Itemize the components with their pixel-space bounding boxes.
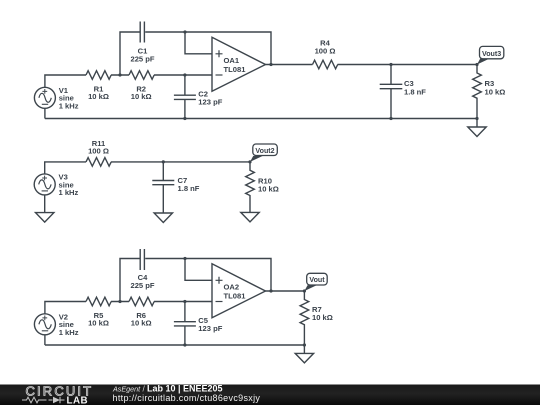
- ground under C7: [154, 213, 172, 223]
- capacitor C5: [174, 302, 196, 346]
- capacitor C3: [380, 65, 403, 119]
- svg-text:TL081: TL081: [224, 292, 247, 301]
- C7 label: [178, 176, 200, 193]
- R4 label: [315, 39, 336, 56]
- resistor R4: [313, 60, 338, 69]
- flag Vout3: [477, 46, 504, 64]
- C3 bottom dot: [389, 117, 392, 120]
- rail dot R7: [303, 343, 306, 346]
- svg-text:1.8 nF: 1.8 nF: [404, 87, 426, 96]
- R5 label: [88, 311, 109, 328]
- svg-text:1 kHz: 1 kHz: [59, 328, 79, 337]
- wire feedback left vertical: [120, 32, 140, 75]
- R1 label: [88, 84, 109, 101]
- resistor R7: [300, 291, 309, 345]
- R3 label: [485, 79, 506, 96]
- svg-text:Vout3: Vout3: [482, 50, 501, 58]
- wire op-amp output: [266, 64, 313, 66]
- R10 label: [258, 176, 279, 193]
- output node dot: [269, 63, 272, 66]
- V1 label: [59, 86, 79, 111]
- C4 label: [130, 273, 154, 290]
- svg-text:10 kΩ: 10 kΩ: [131, 92, 152, 101]
- svg-text:10 kΩ: 10 kΩ: [88, 92, 109, 101]
- R2 label: [131, 84, 152, 101]
- wire V2 bottom to rail: [44, 335, 46, 345]
- C5 bottom dot: [183, 343, 186, 346]
- node Vout dot: [303, 289, 306, 292]
- capacitor C7: [152, 162, 174, 213]
- C7 top dot: [162, 160, 165, 163]
- capacitor C4: [140, 249, 144, 270]
- wire bottom rail: [45, 118, 477, 120]
- C3 label: [404, 79, 426, 96]
- node C2 top dot: [183, 73, 186, 76]
- wire V2 top: [45, 302, 86, 314]
- footer bar: [0, 385, 540, 405]
- C2 label: [198, 90, 222, 107]
- resistor R10: [246, 162, 255, 213]
- wire feedback top 2: [145, 259, 271, 292]
- svg-text:10 kΩ: 10 kΩ: [485, 87, 506, 96]
- wire R2 to op-amp: [154, 74, 212, 76]
- flag Vout: [304, 273, 327, 291]
- resistor R5: [86, 297, 111, 306]
- svg-text:1.8 nF: 1.8 nF: [178, 184, 200, 193]
- op-amp OA2: [212, 264, 266, 318]
- wire op-amp output 2: [266, 290, 305, 292]
- resistor R3: [473, 65, 482, 119]
- flag Vout2: [250, 144, 277, 162]
- C1 label: [130, 47, 154, 64]
- ground (bottom circuit): [295, 345, 313, 363]
- svg-text:1 kHz: 1 kHz: [59, 101, 79, 110]
- C2 bottom dot: [183, 117, 186, 120]
- svg-text:225 pF: 225 pF: [130, 281, 154, 290]
- svg-text:1 kHz: 1 kHz: [59, 188, 79, 197]
- V2 label: [59, 312, 79, 337]
- wire R1 to R2: [111, 74, 129, 76]
- resistor R2: [129, 71, 154, 80]
- output node dot 2: [269, 289, 272, 292]
- svg-text:10 kΩ: 10 kΩ: [131, 319, 152, 328]
- svg-text:225 pF: 225 pF: [130, 55, 154, 64]
- capacitor C1: [140, 22, 144, 43]
- voltage source V2: [34, 314, 55, 335]
- logo squiggle wire: [22, 397, 65, 403]
- svg-text:Vout2: Vout2: [255, 147, 274, 155]
- wire R6 to op-amp: [154, 301, 212, 303]
- wire R4 to node: [338, 64, 478, 66]
- wire V3 top: [45, 162, 86, 174]
- wire to noninverting input 2: [185, 259, 212, 281]
- C5 label: [198, 316, 222, 333]
- node + tap dot 2: [183, 257, 186, 260]
- wire R5 to R6: [111, 301, 129, 303]
- C3 top dot: [389, 63, 392, 66]
- svg-text:10 kΩ: 10 kΩ: [258, 184, 279, 193]
- wire feedback left vertical 2: [120, 259, 140, 302]
- voltage source V1: [34, 87, 55, 108]
- resistor R11: [86, 158, 111, 167]
- svg-text:123 pF: 123 pF: [198, 324, 222, 333]
- wire feedback top: [145, 32, 271, 65]
- R7 label: [312, 305, 333, 322]
- R6 label: [131, 311, 152, 328]
- svg-text:LAB: LAB: [67, 395, 89, 405]
- node A dot: [118, 73, 121, 76]
- resistor R6: [129, 297, 154, 306]
- V3 label: [59, 173, 79, 198]
- svg-text:OA2: OA2: [224, 283, 240, 292]
- OA1 label: [224, 56, 247, 74]
- svg-text:10 kΩ: 10 kΩ: [88, 319, 109, 328]
- wire V1 bottom to rail: [44, 108, 46, 118]
- svg-text:123 pF: 123 pF: [198, 98, 222, 107]
- svg-text:TL081: TL081: [224, 65, 247, 74]
- wire bottom rail 2: [45, 344, 305, 346]
- svg-text:10 kΩ: 10 kΩ: [312, 313, 333, 322]
- node B dot: [118, 300, 121, 303]
- svg-text:100 Ω: 100 Ω: [315, 47, 336, 56]
- ground (top circuit): [468, 119, 486, 137]
- wire to noninverting input: [185, 32, 212, 54]
- OA2 label: [224, 283, 247, 301]
- svg-text:Vout: Vout: [309, 276, 325, 284]
- ground under V3: [36, 195, 54, 222]
- svg-text:OA1: OA1: [224, 56, 240, 65]
- R11 label: [88, 139, 109, 156]
- svg-text:http://circuitlab.com/ctu86evc: http://circuitlab.com/ctu86evc9sxjy: [113, 393, 261, 403]
- op-amp OA1: [212, 37, 266, 91]
- wire R11 to node: [111, 161, 250, 163]
- rail ground dot: [475, 117, 478, 120]
- wire V1 top to main line: [45, 75, 86, 87]
- node + tap dot: [183, 30, 186, 33]
- node Vout3 dot: [475, 63, 478, 66]
- ground under R10: [241, 212, 259, 222]
- node Vout2 dot: [248, 160, 251, 163]
- voltage source V3: [34, 174, 55, 195]
- resistor R1: [86, 71, 111, 80]
- C5 top dot: [183, 300, 186, 303]
- capacitor C2: [174, 75, 196, 119]
- svg-text:100 Ω: 100 Ω: [88, 147, 109, 156]
